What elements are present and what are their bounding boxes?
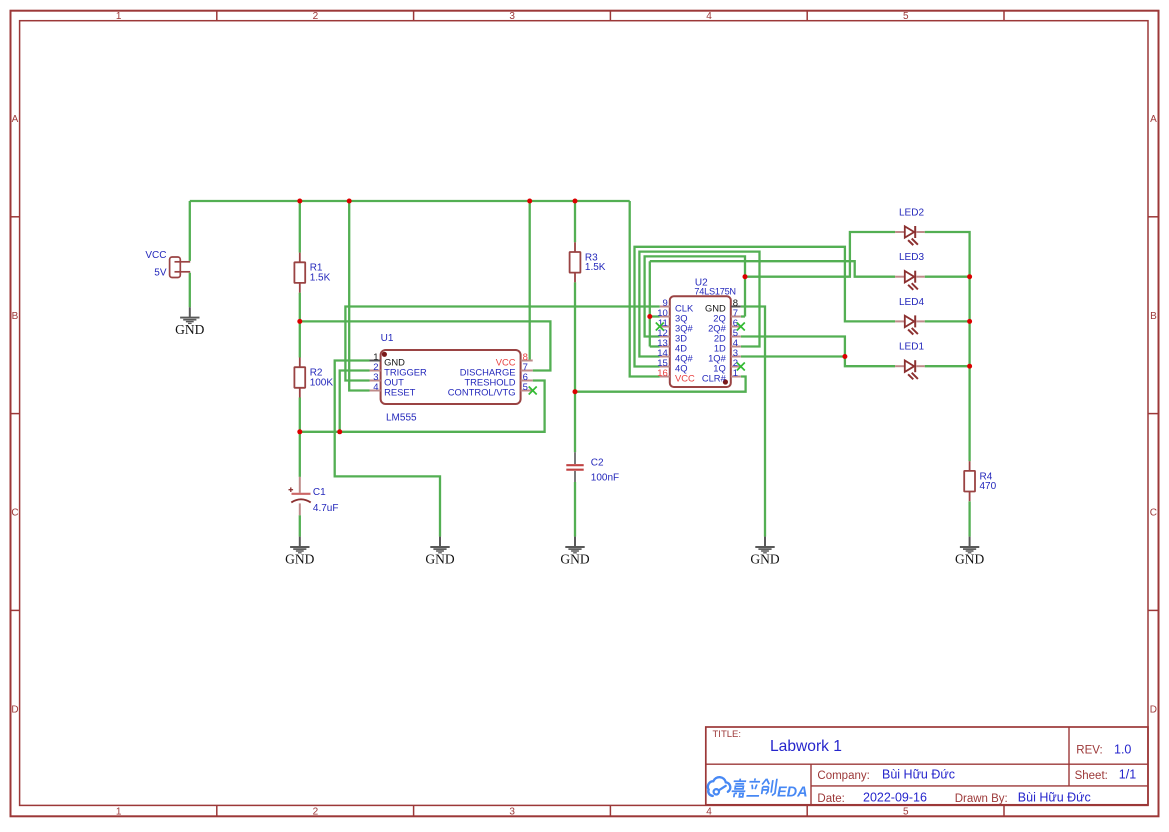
svg-text:LED4: LED4 <box>899 297 924 308</box>
junction LED1 cathode <box>967 364 972 369</box>
U2 pin 5 2D <box>714 328 741 344</box>
svg-text:4: 4 <box>373 382 378 393</box>
wire LED1 cathode link <box>925 365 970 367</box>
wire R1 top drop <box>299 201 301 253</box>
wire TRIGGER drop <box>340 371 370 432</box>
wire R2 bottom to node <box>299 398 301 432</box>
svg-text:2022-09-16: 2022-09-16 <box>863 791 927 805</box>
U1 pin 5 CONTROL/VTG <box>448 382 533 398</box>
wire 4Q to LED4 anode <box>635 247 896 367</box>
svg-text:3: 3 <box>509 11 515 22</box>
no-connect X on U2 pin 2 <box>737 363 745 371</box>
svg-text:5: 5 <box>523 382 528 393</box>
wire VCC symbol to ground <box>189 273 191 308</box>
svg-text:GND: GND <box>175 322 204 337</box>
svg-text:74LS175N: 74LS175N <box>694 287 735 297</box>
frame column labels bottom <box>116 807 909 818</box>
wire 2D to LED1 anode <box>741 337 895 367</box>
wire node to DISCHARGE <box>300 321 551 370</box>
capacitor C1 4.7uF <box>289 477 339 515</box>
junction R3 at rail <box>573 199 578 204</box>
frame row ticks left <box>11 217 20 611</box>
junction LED3 cathode <box>967 274 972 279</box>
junction R1-R2-DISCHARGE node <box>297 319 302 324</box>
svg-text:Labwork 1: Labwork 1 <box>770 738 842 755</box>
junction 1Q#-2D-LED1 node <box>842 354 847 359</box>
wire 2Q stub link <box>741 315 745 317</box>
wire R1 bottom to node <box>299 293 301 358</box>
svg-text:Company:: Company: <box>817 770 869 782</box>
U1 pin 6 TRESHOLD <box>464 372 532 388</box>
wire 4Q# to 1D <box>639 252 759 357</box>
junction RESET at rail <box>347 199 352 204</box>
wire C2 to ground <box>574 482 576 537</box>
svg-text:VCC: VCC <box>145 250 166 261</box>
frame row ticks right <box>1148 217 1159 611</box>
U2 pin 4 1D <box>714 338 741 354</box>
svg-text:D: D <box>11 705 18 716</box>
frame column ticks top <box>217 11 1004 21</box>
svg-text:1.5K: 1.5K <box>585 262 606 273</box>
svg-text:B: B <box>12 311 19 322</box>
wire LED2 cathode to rail <box>925 232 970 461</box>
svg-text:16: 16 <box>657 368 668 379</box>
svg-text:470: 470 <box>980 481 997 492</box>
svg-text:1.0: 1.0 <box>1114 743 1131 757</box>
U1 pin 1 GND <box>370 352 406 368</box>
svg-text:TITLE:: TITLE: <box>713 729 742 740</box>
resistor R2 100K <box>294 358 333 398</box>
junction U1 VCC at rail <box>527 199 532 204</box>
wire 3Q to 4D <box>650 345 660 347</box>
svg-text:4: 4 <box>706 11 712 22</box>
U2 pin 7 2Q <box>713 308 741 324</box>
U1 pin 8 VCC <box>496 352 533 368</box>
svg-text:C2: C2 <box>591 457 604 468</box>
junction R1 at rail <box>297 199 302 204</box>
U2 pin 9 CLK <box>660 298 694 314</box>
wire node to CLR# <box>575 377 746 392</box>
EasyEDA logo text JiaLiChuang <box>731 778 777 797</box>
resistor R1 1.5K <box>294 253 330 293</box>
wire LED4 cathode link <box>925 320 970 322</box>
wire U2 GND pin to ground <box>741 307 765 537</box>
frame row labels right <box>1150 114 1157 715</box>
svg-text:5V: 5V <box>154 267 167 278</box>
U2 pin 10 3Q <box>657 308 687 324</box>
wire R4 to ground <box>968 501 970 536</box>
U2 pin 16 VCC <box>657 368 695 384</box>
wire U1 VCC riser <box>529 201 531 361</box>
wire 3Q to LED3 anode <box>650 261 895 277</box>
ground under C1 <box>285 537 314 567</box>
junction TRIGGER at loop <box>337 429 342 434</box>
U2 pin 14 4Q# <box>657 348 693 364</box>
svg-text:GND: GND <box>750 551 779 566</box>
wire 2Q to LED2 anode <box>745 232 895 277</box>
svg-text:A: A <box>1150 114 1157 125</box>
ground under C2 <box>560 537 589 567</box>
junction 3Q pin 10 <box>647 314 652 319</box>
wire 3Q vertical <box>649 261 651 346</box>
svg-text:100nF: 100nF <box>591 473 619 484</box>
ground under U2 GND pin <box>750 537 779 567</box>
wire RESET riser to rail <box>349 201 369 391</box>
wire U1 pin1 to ground <box>335 361 440 537</box>
svg-text:LED3: LED3 <box>899 252 924 263</box>
svg-text:CONTROL/VTG: CONTROL/VTG <box>448 387 516 398</box>
svg-text:LED2: LED2 <box>899 207 924 218</box>
svg-text:GND: GND <box>425 551 454 566</box>
svg-text:RESET: RESET <box>384 387 416 398</box>
svg-text:100K: 100K <box>310 377 334 388</box>
junction 2Q riser <box>743 274 748 279</box>
U1 pin 4 RESET <box>370 382 416 398</box>
U1 pin 2 TRIGGER <box>370 362 428 378</box>
frame row labels left <box>11 114 18 715</box>
ground under VCC <box>175 307 204 337</box>
svg-text:1: 1 <box>116 807 122 818</box>
ground under U1 pin1 <box>425 537 454 567</box>
junction LED4 cathode <box>967 319 972 324</box>
junction R3-C2-CLR# node <box>573 389 578 394</box>
frame column ticks bottom <box>217 805 1004 816</box>
wire LED3 cathode link <box>925 276 970 278</box>
wire C1 to ground <box>299 515 301 536</box>
svg-text:CLR#: CLR# <box>702 373 727 384</box>
wire 3Q stub link <box>650 315 660 317</box>
svg-text:1/1: 1/1 <box>1119 768 1136 782</box>
svg-text:VCC: VCC <box>675 373 695 384</box>
svg-text:Date:: Date: <box>817 793 845 805</box>
wire VCC symbol stem <box>189 201 191 261</box>
svg-text:A: A <box>12 114 19 125</box>
svg-text:4: 4 <box>706 807 712 818</box>
svg-text:Drawn By:: Drawn By: <box>955 793 1008 805</box>
svg-text:GND: GND <box>955 551 984 566</box>
power port VCC 5V <box>145 250 190 278</box>
LED LED4 <box>895 297 925 334</box>
resistor R3 1.5K <box>570 242 606 282</box>
U2 pin 11 3Q# <box>658 318 694 334</box>
svg-text:4.7uF: 4.7uF <box>313 503 339 514</box>
wire U2 VCC feed <box>630 201 660 377</box>
svg-text:3: 3 <box>509 807 515 818</box>
capacitor C2 100nF <box>566 452 619 483</box>
U2 pin 8 GND <box>705 298 741 314</box>
U2 pin 15 4Q <box>657 358 687 374</box>
U2 pin 12 3D <box>657 328 687 344</box>
svg-text:C: C <box>11 508 18 519</box>
svg-text:5: 5 <box>903 807 909 818</box>
wire R3 top drop <box>574 201 576 242</box>
svg-text:1.5K: 1.5K <box>310 273 331 284</box>
LED LED3 <box>895 252 925 290</box>
svg-text:LED1: LED1 <box>899 342 924 353</box>
wire 2Q to 3D <box>645 256 745 336</box>
U1 pin 7 DISCHARGE <box>460 362 533 378</box>
svg-text:Sheet:: Sheet: <box>1075 770 1108 782</box>
op-amp timer U1 LM555 <box>381 333 521 424</box>
U2 pin 1 CLR# <box>702 368 741 384</box>
flip-flop U2 74LS175N <box>670 278 736 387</box>
svg-text:U1: U1 <box>381 333 394 344</box>
LED LED2 <box>895 207 925 245</box>
wire TRESHOLD loop <box>300 381 545 432</box>
resistor R4 470 <box>964 461 996 501</box>
EasyEDA logo cloud icon <box>708 777 730 796</box>
svg-text:D: D <box>1150 705 1157 716</box>
LED LED1 <box>895 342 925 380</box>
svg-text:2: 2 <box>313 807 319 818</box>
svg-text:GND: GND <box>285 551 314 566</box>
svg-text:GND: GND <box>560 551 589 566</box>
svg-text:Bùi Hữu Đức: Bùi Hữu Đức <box>882 768 955 782</box>
wire OUT to U2 CLK <box>345 307 659 381</box>
wire node to C1 <box>299 432 301 477</box>
wire R3 to C2 <box>574 282 576 452</box>
svg-text:2: 2 <box>313 11 319 22</box>
wire VCC top rail <box>190 200 630 202</box>
no-connect X on U1 pin 5 <box>529 387 537 395</box>
no-connect X on U2 pin 11 <box>656 323 664 331</box>
svg-text:C: C <box>1150 508 1157 519</box>
svg-text:LM555: LM555 <box>386 413 417 424</box>
svg-text:1: 1 <box>116 11 122 22</box>
no-connect X on U2 pin 6 <box>737 323 745 331</box>
svg-text:B: B <box>1150 311 1157 322</box>
title block frame <box>706 727 1148 805</box>
U2 pin 13 4D <box>657 338 687 354</box>
frame column labels top <box>116 11 909 22</box>
ground under R4 <box>955 537 984 567</box>
svg-text:C1: C1 <box>313 487 326 498</box>
U1 pin 3 OUT <box>370 372 405 388</box>
U2 pin 3 1Q# <box>708 348 741 364</box>
wire 1Q# to node <box>741 355 845 357</box>
svg-text:EDA: EDA <box>777 784 808 800</box>
svg-text:Bùi Hữu Đức: Bùi Hữu Đức <box>1018 791 1091 805</box>
U2 pin 6 2Q# <box>708 318 741 334</box>
junction R2-C1-loop node <box>297 429 302 434</box>
svg-text:REV:: REV: <box>1076 745 1102 757</box>
U2 pin 2 1Q <box>713 358 741 374</box>
svg-text:5: 5 <box>903 11 909 22</box>
